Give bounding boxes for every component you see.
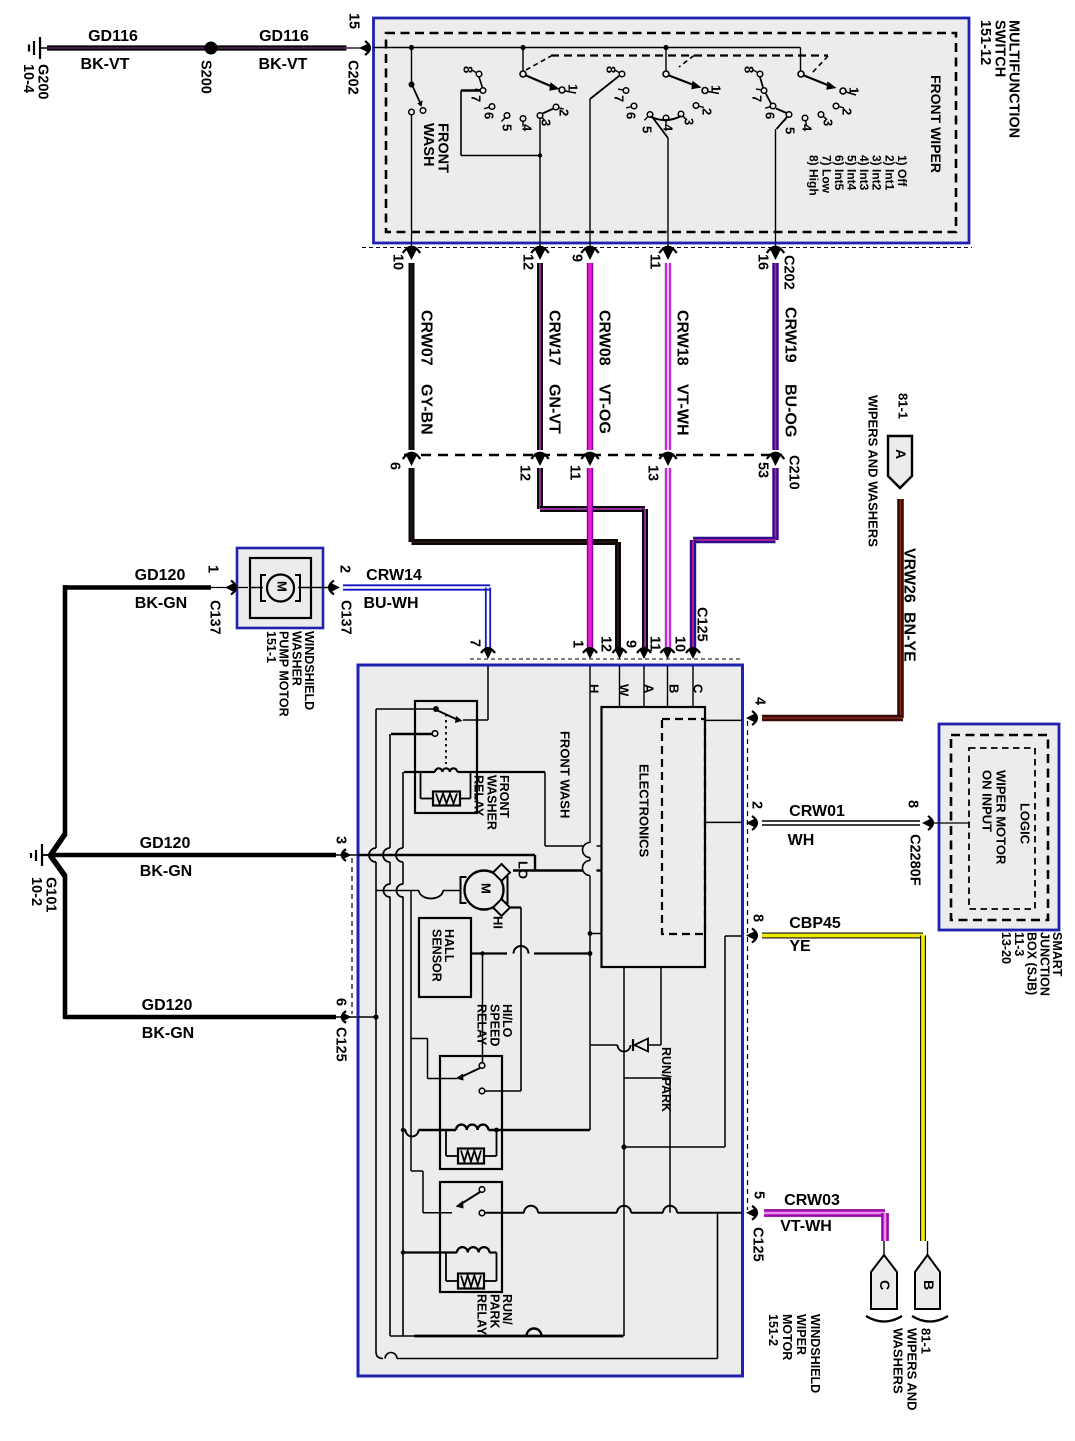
svg-text:6: 6 bbox=[482, 112, 497, 119]
svg-text:2: 2 bbox=[700, 108, 715, 115]
svg-text:GD120: GD120 bbox=[142, 997, 193, 1014]
svg-text:MOTOR: MOTOR bbox=[780, 1314, 794, 1360]
svg-text:C2280F: C2280F bbox=[907, 834, 923, 886]
svg-text:6: 6 bbox=[333, 998, 349, 1006]
svg-text:C125: C125 bbox=[694, 607, 710, 642]
svg-text:B: B bbox=[667, 684, 682, 693]
svg-text:CRW01: CRW01 bbox=[789, 803, 845, 820]
svg-text:CRW19: CRW19 bbox=[781, 307, 798, 363]
svg-text:RELAY: RELAY bbox=[472, 775, 486, 817]
svg-text:3: 3 bbox=[539, 119, 554, 126]
svg-text:12: 12 bbox=[520, 254, 536, 270]
svg-text:GD120: GD120 bbox=[135, 567, 186, 584]
svg-text:BK-VT: BK-VT bbox=[81, 56, 130, 73]
svg-text:CRW14: CRW14 bbox=[366, 567, 422, 584]
svg-text:CBP45: CBP45 bbox=[789, 915, 841, 932]
svg-text:WIPERS AND WASHERS: WIPERS AND WASHERS bbox=[866, 395, 881, 547]
svg-text:5: 5 bbox=[751, 1191, 767, 1199]
svg-text:151-1: 151-1 bbox=[264, 631, 278, 663]
svg-text:WH: WH bbox=[788, 832, 815, 849]
svg-text:WINDSHIELD: WINDSHIELD bbox=[808, 1314, 822, 1393]
svg-text:C125: C125 bbox=[750, 1227, 766, 1262]
svg-text:7: 7 bbox=[750, 95, 765, 102]
svg-text:BK-GN: BK-GN bbox=[140, 863, 192, 880]
svg-text:81-1: 81-1 bbox=[919, 1328, 934, 1354]
svg-text:16: 16 bbox=[755, 254, 771, 270]
svg-text:GY-BN: GY-BN bbox=[417, 384, 434, 435]
svg-text:1: 1 bbox=[205, 565, 221, 573]
svg-text:151-12: 151-12 bbox=[977, 20, 993, 65]
svg-text:C137: C137 bbox=[338, 600, 354, 635]
svg-text:1: 1 bbox=[570, 640, 586, 648]
svg-text:H: H bbox=[587, 684, 602, 693]
svg-text:1: 1 bbox=[566, 84, 581, 91]
svg-text:RUN/PARK: RUN/PARK bbox=[659, 1047, 673, 1112]
svg-text:RELAY: RELAY bbox=[475, 1004, 489, 1046]
svg-text:11: 11 bbox=[567, 465, 583, 480]
svg-text:C210: C210 bbox=[786, 455, 802, 490]
svg-text:G101: G101 bbox=[43, 877, 59, 912]
svg-text:RELAY: RELAY bbox=[475, 1294, 489, 1336]
svg-text:BU-OG: BU-OG bbox=[781, 384, 798, 437]
svg-text:3: 3 bbox=[682, 118, 697, 125]
svg-text:WIPER: WIPER bbox=[794, 1314, 808, 1355]
svg-text:6: 6 bbox=[763, 112, 778, 119]
svg-text:M: M bbox=[275, 581, 290, 592]
svg-text:G200: G200 bbox=[35, 64, 51, 99]
svg-text:C: C bbox=[691, 684, 706, 694]
svg-text:1: 1 bbox=[709, 85, 724, 92]
svg-text:WIPERS AND: WIPERS AND bbox=[905, 1328, 920, 1411]
svg-text:ON INPUT: ON INPUT bbox=[980, 770, 995, 832]
svg-text:8: 8 bbox=[461, 66, 476, 73]
svg-text:11: 11 bbox=[647, 636, 663, 651]
svg-text:BK-GN: BK-GN bbox=[135, 595, 187, 612]
svg-text:3: 3 bbox=[821, 119, 836, 126]
svg-text:7: 7 bbox=[612, 95, 627, 102]
svg-text:VT-OG: VT-OG bbox=[595, 384, 612, 434]
svg-text:FRONT: FRONT bbox=[435, 123, 451, 173]
svg-text:15: 15 bbox=[346, 13, 362, 29]
svg-text:13-20: 13-20 bbox=[999, 932, 1013, 964]
svg-text:10-2: 10-2 bbox=[28, 877, 44, 906]
svg-text:8: 8 bbox=[742, 66, 757, 73]
svg-text:S200: S200 bbox=[198, 60, 214, 94]
svg-text:VT-WH: VT-WH bbox=[673, 384, 690, 436]
svg-text:W: W bbox=[617, 684, 632, 697]
svg-text:LOGIC: LOGIC bbox=[1018, 803, 1033, 845]
svg-text:9: 9 bbox=[623, 640, 639, 648]
svg-text:WASH: WASH bbox=[420, 123, 436, 167]
svg-text:M: M bbox=[479, 883, 494, 894]
svg-text:12: 12 bbox=[517, 465, 533, 481]
svg-text:CRW03: CRW03 bbox=[784, 1192, 840, 1209]
svg-text:4: 4 bbox=[752, 697, 768, 705]
svg-text:6: 6 bbox=[387, 462, 403, 470]
svg-text:5: 5 bbox=[640, 126, 655, 133]
svg-text:4: 4 bbox=[800, 124, 815, 132]
svg-text:2: 2 bbox=[749, 801, 765, 809]
svg-text:11: 11 bbox=[647, 254, 663, 269]
svg-text:BN-YE: BN-YE bbox=[900, 612, 917, 662]
svg-text:10-4: 10-4 bbox=[20, 64, 36, 93]
svg-text:2: 2 bbox=[557, 109, 572, 116]
svg-text:CRW17: CRW17 bbox=[545, 310, 562, 366]
svg-text:FRONT WIPER: FRONT WIPER bbox=[928, 75, 944, 173]
svg-text:FRONT WASH: FRONT WASH bbox=[558, 731, 573, 818]
svg-text:151-2: 151-2 bbox=[766, 1314, 780, 1346]
svg-text:4: 4 bbox=[661, 124, 676, 132]
svg-text:10: 10 bbox=[672, 636, 688, 652]
svg-text:C202: C202 bbox=[781, 255, 797, 290]
svg-text:8) High: 8) High bbox=[807, 155, 821, 196]
svg-text:A: A bbox=[642, 684, 657, 694]
svg-text:8: 8 bbox=[604, 66, 619, 73]
svg-text:HI: HI bbox=[491, 916, 506, 929]
svg-text:GD120: GD120 bbox=[140, 835, 191, 852]
svg-text:BK-GN: BK-GN bbox=[142, 1025, 194, 1042]
svg-text:C202: C202 bbox=[345, 60, 361, 95]
svg-text:C: C bbox=[877, 1280, 893, 1290]
svg-text:5: 5 bbox=[783, 127, 798, 134]
svg-text:LO: LO bbox=[516, 861, 531, 879]
svg-text:GD116: GD116 bbox=[259, 28, 309, 45]
svg-text:81-1: 81-1 bbox=[896, 393, 911, 419]
svg-text:5: 5 bbox=[500, 124, 515, 131]
svg-text:CRW08: CRW08 bbox=[595, 310, 612, 366]
svg-text:3: 3 bbox=[333, 836, 349, 844]
svg-text:WASHERS: WASHERS bbox=[891, 1328, 906, 1394]
svg-text:CRW07: CRW07 bbox=[417, 310, 434, 366]
svg-text:CRW18: CRW18 bbox=[673, 310, 690, 366]
svg-text:WIPER MOTOR: WIPER MOTOR bbox=[994, 770, 1009, 865]
svg-text:C125: C125 bbox=[333, 1027, 349, 1062]
svg-text:YE: YE bbox=[789, 938, 811, 955]
svg-text:7: 7 bbox=[469, 95, 484, 102]
svg-text:9: 9 bbox=[569, 254, 585, 262]
svg-text:BK-VT: BK-VT bbox=[259, 56, 308, 73]
svg-text:B: B bbox=[921, 1280, 937, 1290]
svg-text:1: 1 bbox=[847, 87, 862, 94]
svg-text:4: 4 bbox=[520, 124, 535, 132]
svg-text:7: 7 bbox=[467, 639, 483, 647]
svg-text:BU-WH: BU-WH bbox=[363, 595, 418, 612]
svg-text:13: 13 bbox=[645, 465, 661, 481]
svg-text:12: 12 bbox=[598, 636, 614, 652]
svg-text:VT-WH: VT-WH bbox=[780, 1218, 832, 1235]
svg-text:GD116: GD116 bbox=[88, 28, 138, 45]
svg-text:GN-VT: GN-VT bbox=[545, 384, 562, 434]
svg-text:10: 10 bbox=[390, 254, 406, 270]
svg-text:C137: C137 bbox=[207, 600, 223, 635]
svg-text:8: 8 bbox=[905, 800, 921, 808]
svg-text:53: 53 bbox=[755, 462, 771, 478]
svg-text:ELECTRONICS: ELECTRONICS bbox=[637, 764, 652, 858]
svg-text:VRW26: VRW26 bbox=[900, 548, 917, 603]
svg-text:2: 2 bbox=[840, 108, 855, 115]
svg-text:2: 2 bbox=[337, 565, 353, 573]
svg-text:6: 6 bbox=[624, 112, 639, 119]
svg-text:A: A bbox=[893, 449, 909, 459]
svg-text:SENSOR: SENSOR bbox=[429, 929, 443, 982]
svg-text:8: 8 bbox=[750, 914, 766, 922]
